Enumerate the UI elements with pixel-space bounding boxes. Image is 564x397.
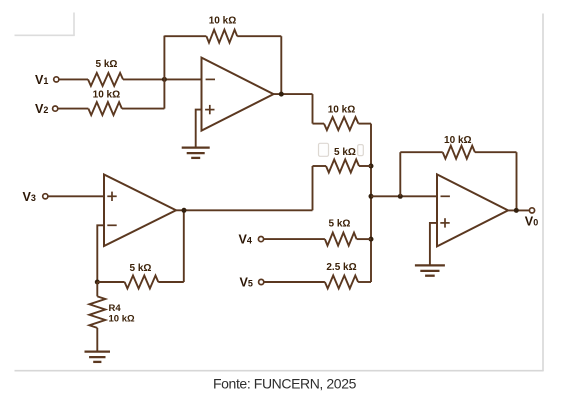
svg-text:10 kΩ: 10 kΩ	[109, 314, 135, 325]
svg-text:V4: V4	[239, 233, 252, 247]
svg-text:5 kΩ: 5 kΩ	[96, 59, 118, 70]
svg-text:5 kΩ: 5 kΩ	[334, 147, 356, 158]
svg-text:Fonte: FUNCERN, 2025: Fonte: FUNCERN, 2025	[213, 375, 357, 391]
svg-text:10 kΩ: 10 kΩ	[328, 104, 355, 115]
svg-text:5 kΩ: 5 kΩ	[329, 218, 351, 229]
svg-text:10 kΩ: 10 kΩ	[209, 16, 236, 27]
svg-text:V5: V5	[240, 276, 253, 290]
svg-text:R4: R4	[109, 303, 122, 314]
svg-text:V2: V2	[35, 102, 48, 116]
svg-text:V1: V1	[35, 73, 48, 87]
svg-text:5 kΩ: 5 kΩ	[130, 263, 152, 274]
svg-text:10 kΩ: 10 kΩ	[444, 135, 471, 146]
svg-text:10 kΩ: 10 kΩ	[93, 90, 120, 101]
svg-text:V0: V0	[525, 214, 538, 228]
svg-text:2.5 kΩ: 2.5 kΩ	[326, 262, 356, 273]
svg-text:V3: V3	[23, 190, 36, 204]
